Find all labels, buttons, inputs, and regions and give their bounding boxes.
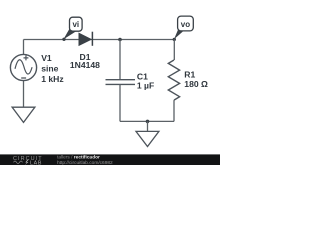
junction node on bottom rail bbox=[146, 120, 150, 124]
label V1 value bbox=[41, 53, 63, 84]
svg-text:LAB: LAB bbox=[30, 160, 42, 165]
svg-text:1N4148: 1N4148 bbox=[70, 60, 100, 70]
wire top rail bbox=[24, 39, 175, 41]
ground (right) bbox=[136, 131, 159, 146]
wire right ground stem bbox=[147, 121, 149, 131]
watermark bar bbox=[0, 154, 220, 165]
wire C1 top stem bbox=[119, 40, 121, 80]
node vi flag bbox=[62, 17, 82, 41]
svg-text:sine: sine bbox=[41, 63, 58, 73]
junction node on top rail bbox=[118, 38, 122, 42]
wire V1 top stem bbox=[23, 40, 25, 55]
svg-text:1 kHz: 1 kHz bbox=[41, 74, 63, 84]
svg-text:http://circuitlab.com/c6982: http://circuitlab.com/c6982 bbox=[57, 160, 113, 165]
wire R1 top lead bbox=[173, 40, 175, 61]
capacitor C1 bbox=[106, 80, 136, 85]
svg-text:vi: vi bbox=[72, 20, 79, 29]
label C1 value bbox=[137, 71, 154, 90]
wire R1 bottom lead bbox=[173, 100, 175, 121]
wire C1 bottom stem bbox=[119, 85, 121, 122]
svg-text:R1: R1 bbox=[184, 69, 195, 79]
svg-text:vo: vo bbox=[181, 20, 190, 29]
wire bottom rail bbox=[120, 120, 174, 122]
svg-text:1 µF: 1 µF bbox=[137, 81, 154, 91]
resistor R1 bbox=[168, 60, 179, 100]
svg-text:tallers / rectificador: tallers / rectificador bbox=[57, 155, 100, 161]
svg-text:180 Ω: 180 Ω bbox=[184, 79, 208, 89]
label R1 value bbox=[184, 69, 208, 89]
diode D1 bbox=[79, 32, 93, 46]
voltage source V1 bbox=[10, 54, 36, 80]
label D1 value bbox=[70, 52, 100, 70]
ground (left) bbox=[12, 107, 35, 122]
wire V1 bottom stem bbox=[23, 81, 25, 107]
CircuitLab logo bbox=[13, 156, 43, 167]
node vo flag bbox=[173, 16, 194, 41]
svg-text:V1: V1 bbox=[41, 53, 52, 63]
